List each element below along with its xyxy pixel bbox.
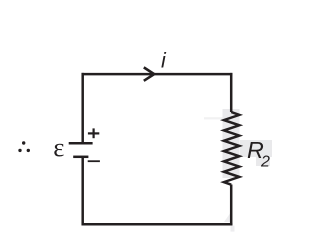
wire right lower (resistor to bottom) (230, 185, 233, 226)
current arrow on top wire (144, 67, 154, 80)
faint artifact streak left of resistor (204, 117, 223, 119)
svg-text:ε: ε (53, 132, 64, 162)
plus sign (88, 128, 99, 138)
minus sign (88, 160, 100, 162)
faint artifact near bottom-right corner (224, 214, 230, 223)
highlight patch behind label R2 (240, 140, 272, 157)
resistor R2 zigzag (224, 112, 239, 185)
highlight patch behind resistor (223, 109, 240, 178)
svg-text:i: i (161, 49, 167, 73)
wire bottom (82, 223, 233, 226)
wire left lower (battery - plate to bottom) (81, 157, 84, 226)
wire top (82, 73, 233, 76)
battery minus plate (short) (73, 156, 88, 159)
svg-text:2: 2 (260, 153, 270, 170)
wire left upper (to battery + plate) (81, 73, 84, 143)
wire right upper (to resistor) (230, 73, 233, 112)
therefore symbol (18, 141, 30, 152)
battery EMF source: plus plate (long) (69, 142, 93, 145)
